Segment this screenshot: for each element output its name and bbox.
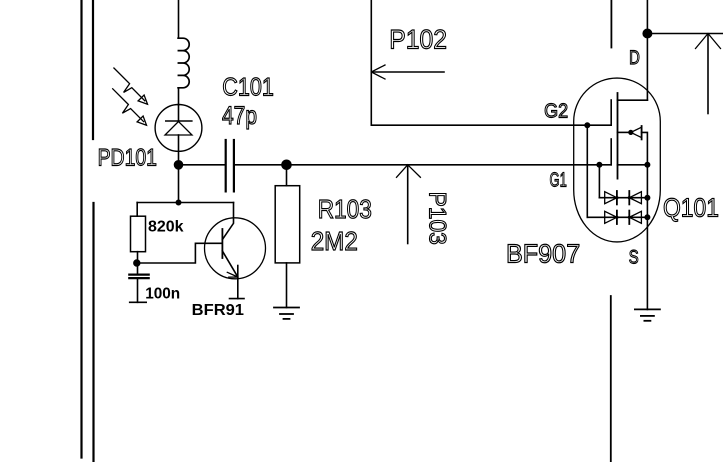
wire G2 protection drop [586,125,588,217]
diode D1b [629,192,641,204]
wire 820k bottom lead [137,252,139,263]
svg-text:820k: 820k [148,218,184,235]
svg-text:Q101: Q101 [663,192,719,222]
wire P102 vertical [370,0,372,125]
mosfet G1 gate bar [610,139,612,165]
svg-text:S: S [629,248,639,269]
svg-text:100n: 100n [145,286,180,303]
node junction G1 [597,163,601,167]
wire substrate tap [618,131,631,133]
svg-text:2M2: 2M2 [311,226,358,256]
node junction above 820k [176,200,180,204]
photodiode PD101 circle [155,105,202,152]
mosfet substrate arrow bar [641,126,643,139]
node junction lower row [645,215,649,219]
photodiode PD101 cathode bar [166,120,192,122]
diode D1a [605,192,617,204]
light arrow 1 [114,68,145,101]
wire left border line 1 [80,0,82,458]
arrow P102 [373,71,445,73]
svg-text:G1: G1 [550,170,567,192]
svg-text:P102: P102 [389,25,447,55]
ground R103 [274,308,299,319]
wire 100n bottom lead [137,279,139,302]
wire substrate to source rail [642,132,648,164]
node junction upper row [645,196,649,200]
node main junction at photodiode [175,161,183,169]
wire emitter lead [237,266,239,299]
wire photodiode node down to bias node [178,165,180,203]
svg-text:47p: 47p [222,102,257,130]
transistor Q BFR91 circle [205,218,266,279]
terminal bar emitter [230,298,245,300]
wire node to C101 [179,164,226,166]
ground source [635,309,660,320]
capacitor C101 left plate [225,140,227,191]
mosfet channel [617,93,619,179]
wire drain node to right edge [647,33,723,35]
node junction drain [643,29,651,37]
arrow P103 [407,166,409,244]
wire R103 bottom lead [286,263,288,308]
svg-text:G2: G2 [544,101,568,123]
node substrate arrow dot [629,131,633,135]
capacitor C101 right plate [233,140,235,191]
wire base node to transistor [138,243,222,263]
wire source rail to ground [646,165,648,310]
wire bias node horizontal [137,202,233,204]
node junction source [645,163,649,167]
node junction at R103 [282,160,291,169]
wire source tap [618,164,648,166]
svg-text:C101: C101 [222,74,273,102]
wire segment bottom right [610,296,612,462]
wire main signal line to G1 [234,164,611,166]
wire drain tap [618,99,648,101]
svg-text:P103: P103 [424,192,451,245]
diode D2b [629,211,641,223]
wire G2 lead horizontal [371,124,611,126]
wire left border line 2 upper [92,0,94,139]
arrow up top right [707,35,709,114]
svg-text:BFR91: BFR91 [192,302,244,319]
transistor base bar [221,229,223,258]
wire drain rail top [646,0,648,100]
wire 100n top lead [137,263,139,274]
transistor emitter diagonal [222,251,237,277]
svg-text:R103: R103 [318,194,372,224]
diode D2a [605,211,617,223]
svg-text:PD101: PD101 [98,144,157,171]
mosfet G2 gate bar [610,100,612,125]
transistor emitter arrowhead [227,272,238,277]
capacitor 100n bottom plate [129,277,148,279]
wire photodiode internal top [178,105,180,122]
node junction G2 [585,123,589,127]
photodiode PD101 triangle [165,122,192,136]
wire inductor top lead [178,0,180,38]
svg-text:D: D [629,48,640,69]
svg-text:BF907: BF907 [506,239,580,269]
wire upper diode row [599,197,647,199]
transistor Q101 envelope [574,78,661,242]
wire 820k top lead [136,203,138,217]
wire segment top middle [610,0,612,48]
inductor L [178,38,189,88]
wire R103 top lead [286,165,288,186]
terminal bar 100n [130,301,147,303]
light arrow 2 [113,89,144,122]
resistor 820k body [131,216,146,252]
wire inductor to photodiode [178,88,180,105]
capacitor 100n top plate [129,274,148,276]
wire photodiode bottom lead [178,135,180,165]
wire G1 protection drop [598,165,600,198]
wire collector lead [222,203,233,240]
node junction 820k/100n/base [134,260,140,266]
wire lower diode row [587,216,647,218]
wire left border line 2 lower [92,203,94,462]
resistor R103 body [275,186,300,263]
mosfet substrate arrow triangle [631,127,642,137]
